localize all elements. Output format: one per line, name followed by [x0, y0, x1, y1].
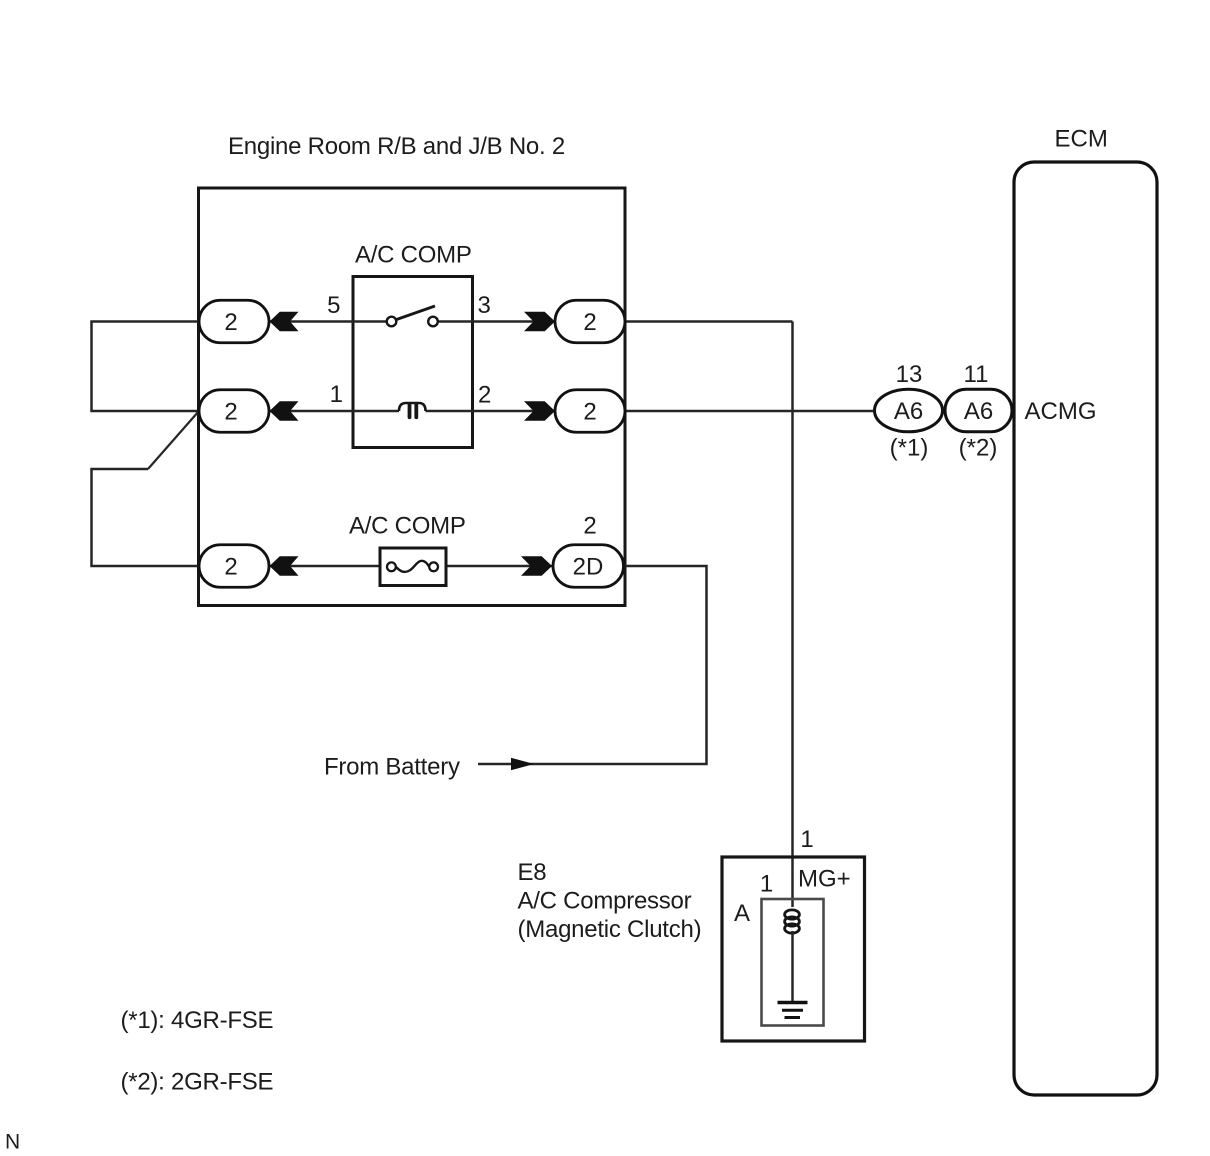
wire row1 switch to right oval — [438, 320, 555, 323]
svg-text:1: 1 — [330, 381, 343, 408]
svg-text:2: 2 — [583, 399, 596, 426]
connector oval 2 row2 left — [199, 390, 269, 433]
arrow right row2 — [524, 401, 555, 421]
connector oval A6 (*2) — [945, 389, 1012, 432]
arrow right row3 — [521, 556, 552, 576]
arrow left row1 — [270, 312, 299, 332]
fuse wave element — [396, 561, 429, 572]
svg-text:A6: A6 — [964, 398, 993, 425]
svg-text:3: 3 — [478, 292, 491, 319]
arrow left row2 — [270, 401, 299, 421]
svg-text:13: 13 — [896, 361, 923, 388]
magnetic clutch coil — [785, 910, 800, 919]
relay coil symbol — [399, 403, 426, 411]
fuse box A/C COMP — [380, 548, 446, 586]
svg-text:2D: 2D — [573, 554, 604, 581]
svg-text:A/C COMP: A/C COMP — [349, 513, 466, 540]
svg-text:1: 1 — [800, 826, 813, 853]
svg-text:A/C COMP: A/C COMP — [355, 242, 472, 269]
E8 outer box — [722, 857, 865, 1041]
connector oval 2D row3 right — [553, 545, 624, 588]
From Battery arrowhead — [511, 758, 534, 771]
wire row2 oval to coil — [270, 410, 400, 413]
svg-text:ECM: ECM — [1055, 126, 1108, 153]
svg-text:1: 1 — [760, 871, 773, 898]
svg-text:2: 2 — [583, 309, 596, 336]
wire row1 oval to switch — [270, 320, 387, 323]
svg-text:ACMG: ACMG — [1025, 398, 1097, 425]
wire row2 right oval to ECM A6 — [625, 410, 875, 413]
svg-text:2: 2 — [224, 399, 237, 426]
svg-text:A6: A6 — [894, 398, 923, 425]
wire row3 oval to fuse — [270, 565, 381, 568]
E8 inner box — [762, 899, 824, 1026]
wire row2-row3 left loop — [92, 469, 200, 566]
connector oval 2 row2 right — [555, 390, 625, 433]
wire row3 fuse to 2D oval — [446, 565, 553, 568]
arrow right row1 — [524, 312, 555, 332]
wire coil to ground — [791, 931, 794, 1003]
svg-text:A/C Compressor: A/C Compressor — [518, 888, 692, 915]
svg-text:11: 11 — [964, 361, 989, 388]
ground — [778, 1001, 808, 1004]
wire diagonal from node of oval 2 — [148, 412, 199, 470]
svg-text:(*2): 2GR-FSE: (*2): 2GR-FSE — [121, 1069, 274, 1096]
svg-text:2: 2 — [478, 382, 491, 409]
connector ellipse A6 (*1) — [875, 389, 943, 432]
relay switch blade — [397, 306, 436, 320]
wire row1 left loop — [92, 322, 200, 412]
connector oval 2 row1 left — [199, 300, 269, 343]
svg-text:N: N — [5, 1131, 20, 1154]
svg-text:A: A — [734, 900, 750, 927]
wire row2 coil to right oval — [426, 410, 556, 413]
wire vertical to E8 MG+ — [791, 322, 794, 908]
ECM box — [1014, 162, 1157, 1095]
svg-text:2: 2 — [583, 513, 596, 540]
relay box A/C COMP — [353, 277, 473, 448]
arrow left row3 — [270, 556, 299, 576]
svg-text:(*2): (*2) — [959, 435, 998, 462]
relay switch contact circles — [387, 317, 397, 327]
svg-text:E8: E8 — [518, 859, 547, 886]
connector oval 2 row3 left — [199, 545, 269, 588]
svg-text:From Battery: From Battery — [324, 754, 460, 781]
svg-text:(Magnetic Clutch): (Magnetic Clutch) — [518, 916, 702, 943]
svg-text:Engine Room R/B and J/B No. 2: Engine Room R/B and J/B No. 2 — [228, 133, 565, 160]
fuse contact circles — [387, 562, 396, 571]
svg-text:5: 5 — [327, 292, 340, 319]
svg-text:(*1): (*1) — [890, 435, 929, 462]
wire row1 right oval to vertical — [625, 320, 793, 323]
svg-text:2: 2 — [224, 554, 237, 581]
connector oval 2 row1 right — [555, 300, 625, 343]
junction block box (Engine Room R/B and J/B No. 2) — [199, 188, 626, 606]
svg-text:2: 2 — [224, 309, 237, 336]
svg-text:MG+: MG+ — [798, 866, 851, 893]
wire 2D oval to battery feed corner — [478, 566, 707, 764]
svg-text:(*1): 4GR-FSE: (*1): 4GR-FSE — [121, 1007, 274, 1034]
